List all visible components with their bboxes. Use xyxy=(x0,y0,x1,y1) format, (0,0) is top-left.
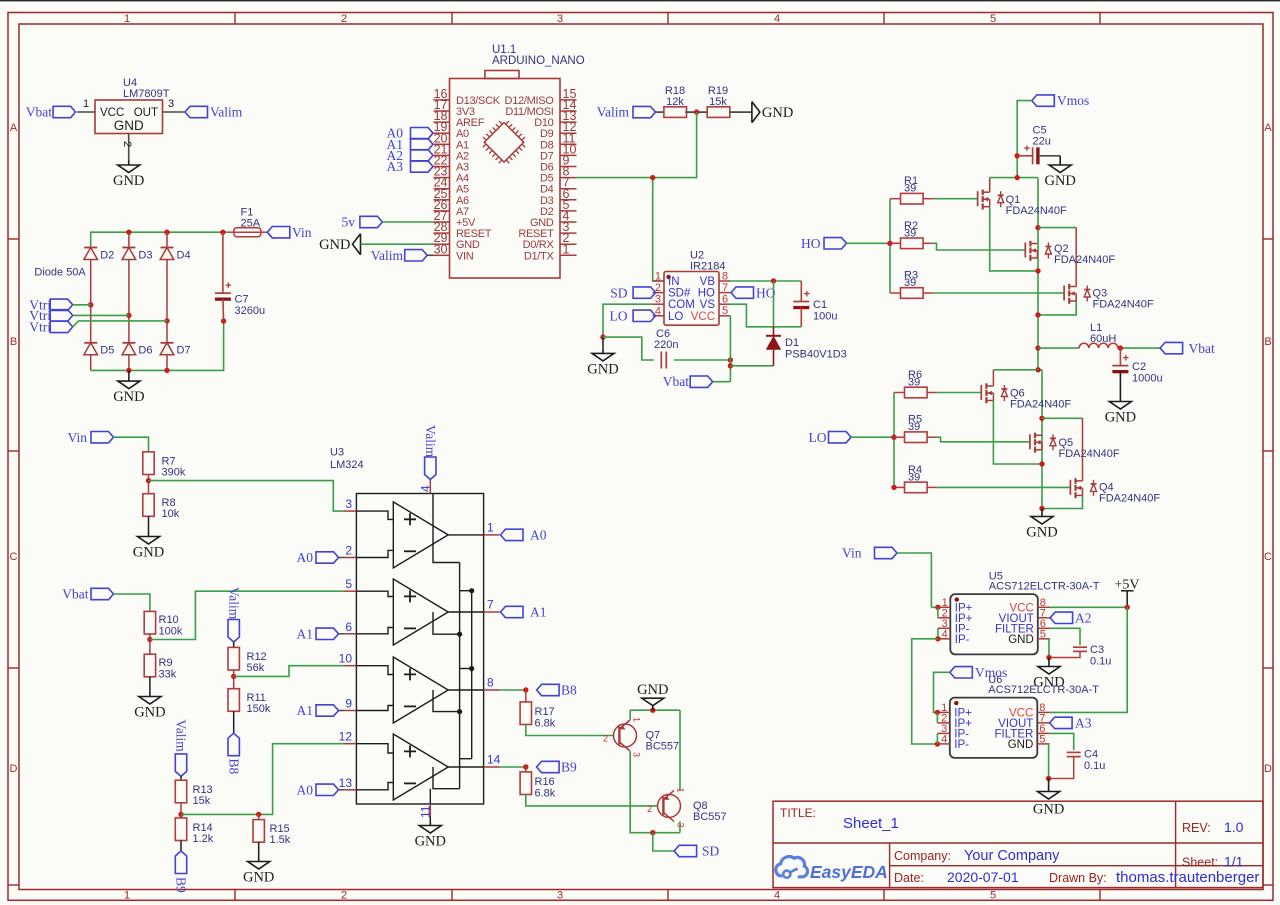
svg-text:B: B xyxy=(1264,336,1271,348)
svg-text:D6: D6 xyxy=(138,345,152,357)
wire U3 input jog xyxy=(356,706,393,711)
transistor Q3 FDA24N40F xyxy=(1064,284,1154,311)
resistor R3 39 xyxy=(890,270,933,299)
fuse F1 25A xyxy=(228,207,267,237)
wire U5 FILTER to C3 xyxy=(1050,628,1080,645)
net flag Vtri2 xyxy=(29,308,72,323)
main vertical bus xyxy=(1037,178,1039,370)
U3 pin 5 xyxy=(344,577,357,591)
wire VB to C1 xyxy=(730,280,801,282)
svg-text:ARDUINO_NANO: ARDUINO_NANO xyxy=(492,55,585,67)
svg-text:0.1u: 0.1u xyxy=(1090,656,1111,668)
node R18/R19 xyxy=(694,109,699,114)
svg-text:GND: GND xyxy=(587,361,618,377)
resistor R7 390k xyxy=(143,452,186,479)
svg-text:VIN: VIN xyxy=(456,250,474,262)
U5 pin 4 IP- xyxy=(938,628,970,646)
capacitor C2 1000u xyxy=(1112,348,1162,397)
svg-text:+: + xyxy=(804,289,810,301)
U6 pin 6 FILTER xyxy=(995,723,1050,741)
svg-text:LO: LO xyxy=(809,430,827,445)
svg-text:7: 7 xyxy=(487,598,494,612)
D3 top wire xyxy=(128,232,130,247)
pin 13 D10 xyxy=(534,109,576,129)
svg-text:GND: GND xyxy=(1008,739,1034,751)
wire U3 output xyxy=(448,766,483,768)
node Q2 source xyxy=(1035,268,1040,273)
wire Valim to R12 xyxy=(233,642,235,647)
node R7/R8 xyxy=(146,478,151,483)
wire R17 to Q7 base xyxy=(526,725,614,736)
net flag A1 at U3 input xyxy=(297,703,344,718)
U5 pin 6 FILTER xyxy=(995,618,1050,636)
svg-text:SD: SD xyxy=(610,285,628,300)
U3 pin 9 xyxy=(344,697,357,711)
pin 28 RESET xyxy=(434,220,492,240)
title block xyxy=(773,801,1263,887)
wire divider to pin10 xyxy=(234,666,344,677)
wire R16 to Q8 base xyxy=(526,795,658,806)
pin 11 D8 xyxy=(540,131,576,151)
node C7 bottom xyxy=(221,318,226,323)
wire Vtri1 xyxy=(73,304,91,306)
svg-text:VS: VS xyxy=(700,299,716,311)
resistor R1 39 xyxy=(890,175,933,204)
op-amp unit 2 xyxy=(393,579,448,645)
U5 pin 8 VCC xyxy=(1010,597,1051,615)
svg-text:A1: A1 xyxy=(297,703,314,718)
EasyEDA logo xyxy=(776,857,888,882)
rail to fuse xyxy=(223,231,228,233)
resistor R14 1.2k xyxy=(175,818,213,845)
wire VCC pin5 down xyxy=(729,316,731,382)
svg-text:Vbat: Vbat xyxy=(26,105,52,120)
svg-text:A0: A0 xyxy=(297,550,314,565)
svg-text:R10: R10 xyxy=(159,614,179,626)
resistor R17 6.8k xyxy=(520,690,556,730)
top rail xyxy=(91,232,223,247)
node VB/D1 xyxy=(771,278,776,283)
svg-text:1: 1 xyxy=(487,520,494,534)
U6 pin 3 IP- xyxy=(937,723,969,741)
node COM/C6 xyxy=(600,334,605,339)
pin 25 A6 xyxy=(434,187,470,207)
svg-text:2: 2 xyxy=(341,13,347,25)
svg-text:1.0: 1.0 xyxy=(1224,819,1244,835)
svg-text:BC557: BC557 xyxy=(646,741,680,753)
pin 17 3V3 xyxy=(434,98,475,118)
wire R7-R8 xyxy=(148,475,150,495)
svg-text:3: 3 xyxy=(168,98,174,110)
svg-text:Valim: Valim xyxy=(423,425,438,458)
svg-text:D3: D3 xyxy=(138,250,152,262)
svg-text:1.5k: 1.5k xyxy=(270,834,291,846)
wire Vtri3 xyxy=(73,321,167,327)
U5 pin 3 IP- xyxy=(938,618,970,636)
D4 phase wire xyxy=(166,260,168,343)
wire Q2/Q3 drain link xyxy=(1038,227,1076,229)
svg-text:8: 8 xyxy=(722,271,728,283)
svg-text:SD#: SD# xyxy=(668,288,691,300)
svg-text:Valim: Valim xyxy=(597,105,630,120)
svg-text:FDA24N40F: FDA24N40F xyxy=(1093,299,1154,311)
svg-text:Vbat: Vbat xyxy=(663,374,689,389)
svg-text:LM7809T: LM7809T xyxy=(123,88,170,100)
net flag A1 at U3 input xyxy=(297,627,344,642)
svg-text:A0: A0 xyxy=(530,528,547,543)
svg-text:A3: A3 xyxy=(387,159,404,174)
svg-text:GND: GND xyxy=(1044,173,1075,189)
transistor Q6 FDA24N40F xyxy=(981,383,1071,410)
Vmos rail xyxy=(990,177,1038,179)
pin 18 AREF xyxy=(434,109,485,129)
Q6 drain wire xyxy=(992,370,994,386)
svg-text:D7: D7 xyxy=(177,345,191,357)
svg-text:GND: GND xyxy=(1033,675,1064,691)
svg-text:IP-: IP- xyxy=(954,739,969,751)
svg-text:Vtri: Vtri xyxy=(29,319,51,334)
U2 pin 5 VCC xyxy=(691,305,731,323)
node C2 tap xyxy=(1118,345,1123,350)
svg-text:FDA24N40F: FDA24N40F xyxy=(1010,399,1071,411)
net flag LO xyxy=(809,430,852,445)
wire R6 to Q6 gate xyxy=(937,392,981,394)
wire LO to rail xyxy=(851,436,894,438)
wire U3 input jog xyxy=(356,550,393,557)
resistor R13 15k xyxy=(175,780,212,807)
wire Vmos to U6 IP+ xyxy=(934,672,950,723)
diode D2 xyxy=(84,248,114,262)
transistor Q2 FDA24N40F xyxy=(1025,241,1115,266)
svg-text:33k: 33k xyxy=(159,669,177,681)
svg-text:14: 14 xyxy=(487,753,501,767)
wire to U2 IN xyxy=(653,178,664,281)
pin 30 VIN xyxy=(434,242,474,262)
net flag Vin at F1 xyxy=(267,225,311,240)
pin 3 RESET xyxy=(518,220,576,240)
svg-text:LO: LO xyxy=(610,309,628,324)
node switch/Q3 xyxy=(1035,312,1040,317)
U3 pin 4 xyxy=(418,480,432,494)
svg-text:thomas.trautenberger: thomas.trautenberger xyxy=(1116,869,1259,886)
svg-text:GND: GND xyxy=(243,870,274,886)
svg-text:3: 3 xyxy=(655,294,661,306)
svg-text:2020-07-01: 2020-07-01 xyxy=(947,869,1019,885)
wire Valim to R13 xyxy=(180,776,182,781)
U5 IP- chain to U6 xyxy=(912,628,941,746)
svg-text:7: 7 xyxy=(722,282,728,294)
regulator U4 LM7809T xyxy=(77,77,185,161)
D6 bottom wire xyxy=(128,355,130,371)
svg-text:C7: C7 xyxy=(235,294,249,306)
Q8 collector wire xyxy=(679,821,681,832)
svg-text:3260u: 3260u xyxy=(235,305,266,317)
svg-text:COM: COM xyxy=(668,299,695,311)
Q4 source wire xyxy=(1042,495,1083,508)
ground at U6 xyxy=(1033,779,1064,818)
ground at U3 pin11 xyxy=(415,817,446,850)
diode D1 PSB40V1D3 xyxy=(766,281,847,366)
power flag +5V xyxy=(1114,578,1139,608)
op-amp unit 4 xyxy=(393,734,448,800)
node Q2 drain xyxy=(1035,225,1040,230)
svg-text:Valim: Valim xyxy=(174,720,189,753)
ground at U5 xyxy=(1033,658,1064,691)
U3 pin 1 xyxy=(484,520,500,535)
svg-text:10k: 10k xyxy=(162,508,180,520)
net flag B8 xyxy=(537,683,577,698)
pin 15 D12/MISO xyxy=(505,87,577,107)
svg-text:GND: GND xyxy=(113,173,144,189)
Sheet field xyxy=(1182,854,1244,870)
net flag LO at U2 xyxy=(610,309,656,324)
wire R12-R11 xyxy=(233,670,235,689)
wire pin14 to B9 xyxy=(500,766,526,768)
U3 pin 2 xyxy=(344,544,357,558)
svg-text:D: D xyxy=(10,763,18,775)
svg-text:3: 3 xyxy=(345,497,352,511)
wire C4 to gnd node xyxy=(1049,757,1074,779)
svg-text:Valim: Valim xyxy=(371,248,404,263)
svg-text:GND: GND xyxy=(762,105,793,121)
pin 7 D4 xyxy=(540,176,576,196)
svg-text:150k: 150k xyxy=(247,703,271,715)
ground above Q7 xyxy=(637,682,668,710)
svg-text:A0: A0 xyxy=(297,783,314,798)
bottom rail xyxy=(91,321,224,370)
current sensor U6 ACS712ELCTR-30A-T xyxy=(950,674,1099,758)
U3 pin 11 xyxy=(418,789,432,818)
svg-text:FDA24N40F: FDA24N40F xyxy=(1059,448,1120,460)
svg-text:GND: GND xyxy=(1033,802,1064,818)
U2 pin 6 VS xyxy=(700,294,731,312)
svg-text:B9: B9 xyxy=(561,760,577,775)
MCU U1.1 ARDUINO_NANO xyxy=(450,44,585,278)
capacitor C1 100u xyxy=(793,281,837,327)
svg-text:30: 30 xyxy=(434,242,448,256)
svg-text:GND: GND xyxy=(1026,525,1057,541)
ground under R15 xyxy=(243,842,274,885)
wire +5V down to U6 VCC xyxy=(1050,607,1128,712)
svg-text:5: 5 xyxy=(1039,733,1045,745)
svg-text:3: 3 xyxy=(632,752,642,757)
diode D4 xyxy=(160,248,190,262)
wire R3 to Q3 gate xyxy=(933,292,1064,294)
resistor R18 12k xyxy=(664,85,687,117)
svg-text:HO: HO xyxy=(698,288,715,300)
net flag HO at U2 xyxy=(731,285,776,300)
net flag Vbat at U2 xyxy=(663,374,713,389)
net flag Vbat at R10 xyxy=(62,587,113,602)
wire 5v to pin27 xyxy=(382,221,433,223)
node gnd rail xyxy=(650,708,655,713)
svg-text:U3: U3 xyxy=(330,447,344,459)
svg-text:Vmos: Vmos xyxy=(1057,93,1089,108)
pin 26 A7 xyxy=(434,198,470,218)
wire C3 to gnd node xyxy=(1049,651,1080,657)
wire R10-R9 xyxy=(149,634,151,654)
svg-text:Vin: Vin xyxy=(68,430,88,445)
svg-text:56k: 56k xyxy=(247,662,265,674)
svg-text:13: 13 xyxy=(339,776,353,790)
svg-text:LO: LO xyxy=(668,311,683,323)
Company field xyxy=(894,848,1060,864)
svg-text:A1: A1 xyxy=(530,605,547,620)
svg-text:GND: GND xyxy=(134,705,165,721)
svg-text:C2: C2 xyxy=(1132,361,1146,373)
resistor R4 39 xyxy=(894,464,937,493)
net flag A0 at U3 input xyxy=(297,783,344,798)
resistor R11 150k xyxy=(228,689,271,715)
transistor Q1 FDA24N40F xyxy=(978,190,1067,218)
svg-text:D5: D5 xyxy=(100,345,114,357)
U2 pin 7 HO xyxy=(698,282,731,300)
svg-text:Vbat: Vbat xyxy=(1189,341,1215,356)
svg-text:GND: GND xyxy=(113,389,144,405)
svg-text:Vmos: Vmos xyxy=(975,665,1007,680)
svg-text:Sheet_1: Sheet_1 xyxy=(843,815,899,832)
wire Q5/Q4 drain link xyxy=(1042,417,1083,419)
svg-text:15k: 15k xyxy=(193,795,211,807)
svg-text:11: 11 xyxy=(418,805,432,818)
svg-text:Your Company: Your Company xyxy=(964,848,1060,864)
U2 pin 2 SD# xyxy=(653,282,691,300)
wire L1 to Vbat xyxy=(1118,347,1160,349)
D5 bottom wire xyxy=(90,355,92,371)
svg-text:4: 4 xyxy=(941,733,947,745)
svg-text:GND: GND xyxy=(319,237,350,253)
inductor L1 60uH xyxy=(1079,322,1118,348)
MCU chip glyph xyxy=(478,116,530,168)
node D3 top xyxy=(126,230,131,235)
svg-text:GND: GND xyxy=(415,834,446,850)
net flag A0 at U3 out1 xyxy=(501,528,547,543)
resistor R5 39 xyxy=(894,414,937,443)
svg-text:D: D xyxy=(1264,763,1272,775)
wire R1 to Q1 gate xyxy=(933,198,978,200)
pin 14 D11/MOSI xyxy=(505,98,576,118)
svg-text:GND: GND xyxy=(1105,410,1136,426)
net flag B9 under R14 xyxy=(174,841,189,894)
svg-text:C: C xyxy=(1264,551,1272,563)
Q7 collector wire xyxy=(630,751,680,833)
svg-text:12k: 12k xyxy=(666,96,684,108)
gate rail R4-R6 xyxy=(893,393,895,488)
svg-text:R16: R16 xyxy=(535,776,555,788)
pin 27 +5V xyxy=(434,209,476,229)
wire Vmos down xyxy=(1017,101,1032,178)
node C5 tap xyxy=(1015,153,1020,158)
svg-text:Drawn By:: Drawn By: xyxy=(1049,871,1107,885)
svg-text:2: 2 xyxy=(341,890,347,902)
wire divider to D5 net xyxy=(577,112,697,178)
svg-text:A2: A2 xyxy=(1075,611,1092,626)
svg-text:SD: SD xyxy=(702,844,720,859)
node Vtri2 xyxy=(126,313,131,318)
net flag Vbat at U4 xyxy=(26,105,76,120)
net flag A1 at U3 out7 xyxy=(501,605,547,620)
node Q5 drain xyxy=(1039,416,1044,421)
D2 phase wire xyxy=(90,260,92,343)
svg-text:6.8k: 6.8k xyxy=(535,788,556,800)
pin 10 D7 xyxy=(540,142,576,162)
svg-text:+: + xyxy=(1123,353,1129,365)
pin 12 D9 xyxy=(540,120,576,140)
svg-text:HO: HO xyxy=(801,236,821,251)
node +5V xyxy=(1125,605,1130,610)
net flag Vtri1 xyxy=(29,297,72,312)
wire divider to pin12 xyxy=(181,744,344,815)
node U5 gnd xyxy=(1046,655,1051,660)
ground under R8 xyxy=(133,516,164,560)
svg-text:5: 5 xyxy=(722,305,728,317)
wire Vbat to R10 xyxy=(114,594,150,611)
net flag A0 at U3 input xyxy=(297,550,344,565)
svg-text:1: 1 xyxy=(676,788,686,793)
svg-text:FDA24N40F: FDA24N40F xyxy=(1006,205,1067,217)
net flag A2 at MCU xyxy=(387,148,434,163)
net flag SD at Q8 xyxy=(674,844,719,859)
resistor R6 39 xyxy=(894,369,937,398)
wire U6 FILTER to C4 xyxy=(1050,733,1074,750)
net flag Valim at R12 xyxy=(226,587,241,642)
diode D6 xyxy=(122,343,152,357)
wire R2 to Q2 gate xyxy=(933,243,1025,250)
svg-text:A: A xyxy=(1264,122,1272,134)
svg-text:10: 10 xyxy=(339,652,353,666)
U6 pin 7 VIOUT xyxy=(998,712,1049,730)
wire Valim-R18 xyxy=(656,111,664,113)
wire U5 VCC to +5V xyxy=(1050,606,1127,608)
wire U3 output xyxy=(448,534,483,536)
svg-text:4: 4 xyxy=(774,13,780,25)
wire Vtri2 xyxy=(73,314,129,316)
wire R13-R14 xyxy=(180,803,182,818)
wire Q6 drain rail xyxy=(993,369,1038,371)
wire U3 output xyxy=(448,611,483,613)
U3 pin 14 xyxy=(484,753,501,768)
node B8 xyxy=(523,687,528,692)
svg-text:4: 4 xyxy=(774,890,780,902)
op-amp unit 1 xyxy=(393,502,448,568)
current sensor U5 ACS712ELCTR-30A-T xyxy=(950,571,1099,655)
wire Vbat flag to VCC column xyxy=(713,381,731,383)
svg-text:100k: 100k xyxy=(159,626,183,638)
net flag Vin at R7 xyxy=(68,430,114,445)
ground at C5 xyxy=(1044,156,1075,189)
U2 pin 1 IN xyxy=(653,271,680,289)
diode D7 xyxy=(160,343,190,357)
ground flag at pin29 xyxy=(319,234,360,255)
ground at bridge xyxy=(113,370,144,405)
node Vmos rail xyxy=(1015,175,1020,180)
ground at C2 xyxy=(1105,397,1136,426)
svg-text:A3: A3 xyxy=(1075,716,1092,731)
svg-text:1: 1 xyxy=(563,242,570,256)
svg-text:+: + xyxy=(1024,143,1030,155)
svg-text:LM324: LM324 xyxy=(330,459,364,471)
svg-text:C3: C3 xyxy=(1090,644,1104,656)
wire U3 input jog xyxy=(356,628,393,634)
U5 pin 7 VIOUT xyxy=(999,607,1050,625)
node Vtri3 xyxy=(164,318,169,323)
U6 pin 4 IP- xyxy=(937,733,969,751)
svg-text:B9: B9 xyxy=(174,877,189,893)
svg-text:B8: B8 xyxy=(561,683,577,698)
net flag Valim at R18 xyxy=(597,105,656,120)
svg-text:BC557: BC557 xyxy=(693,811,727,823)
svg-text:A: A xyxy=(10,122,18,134)
